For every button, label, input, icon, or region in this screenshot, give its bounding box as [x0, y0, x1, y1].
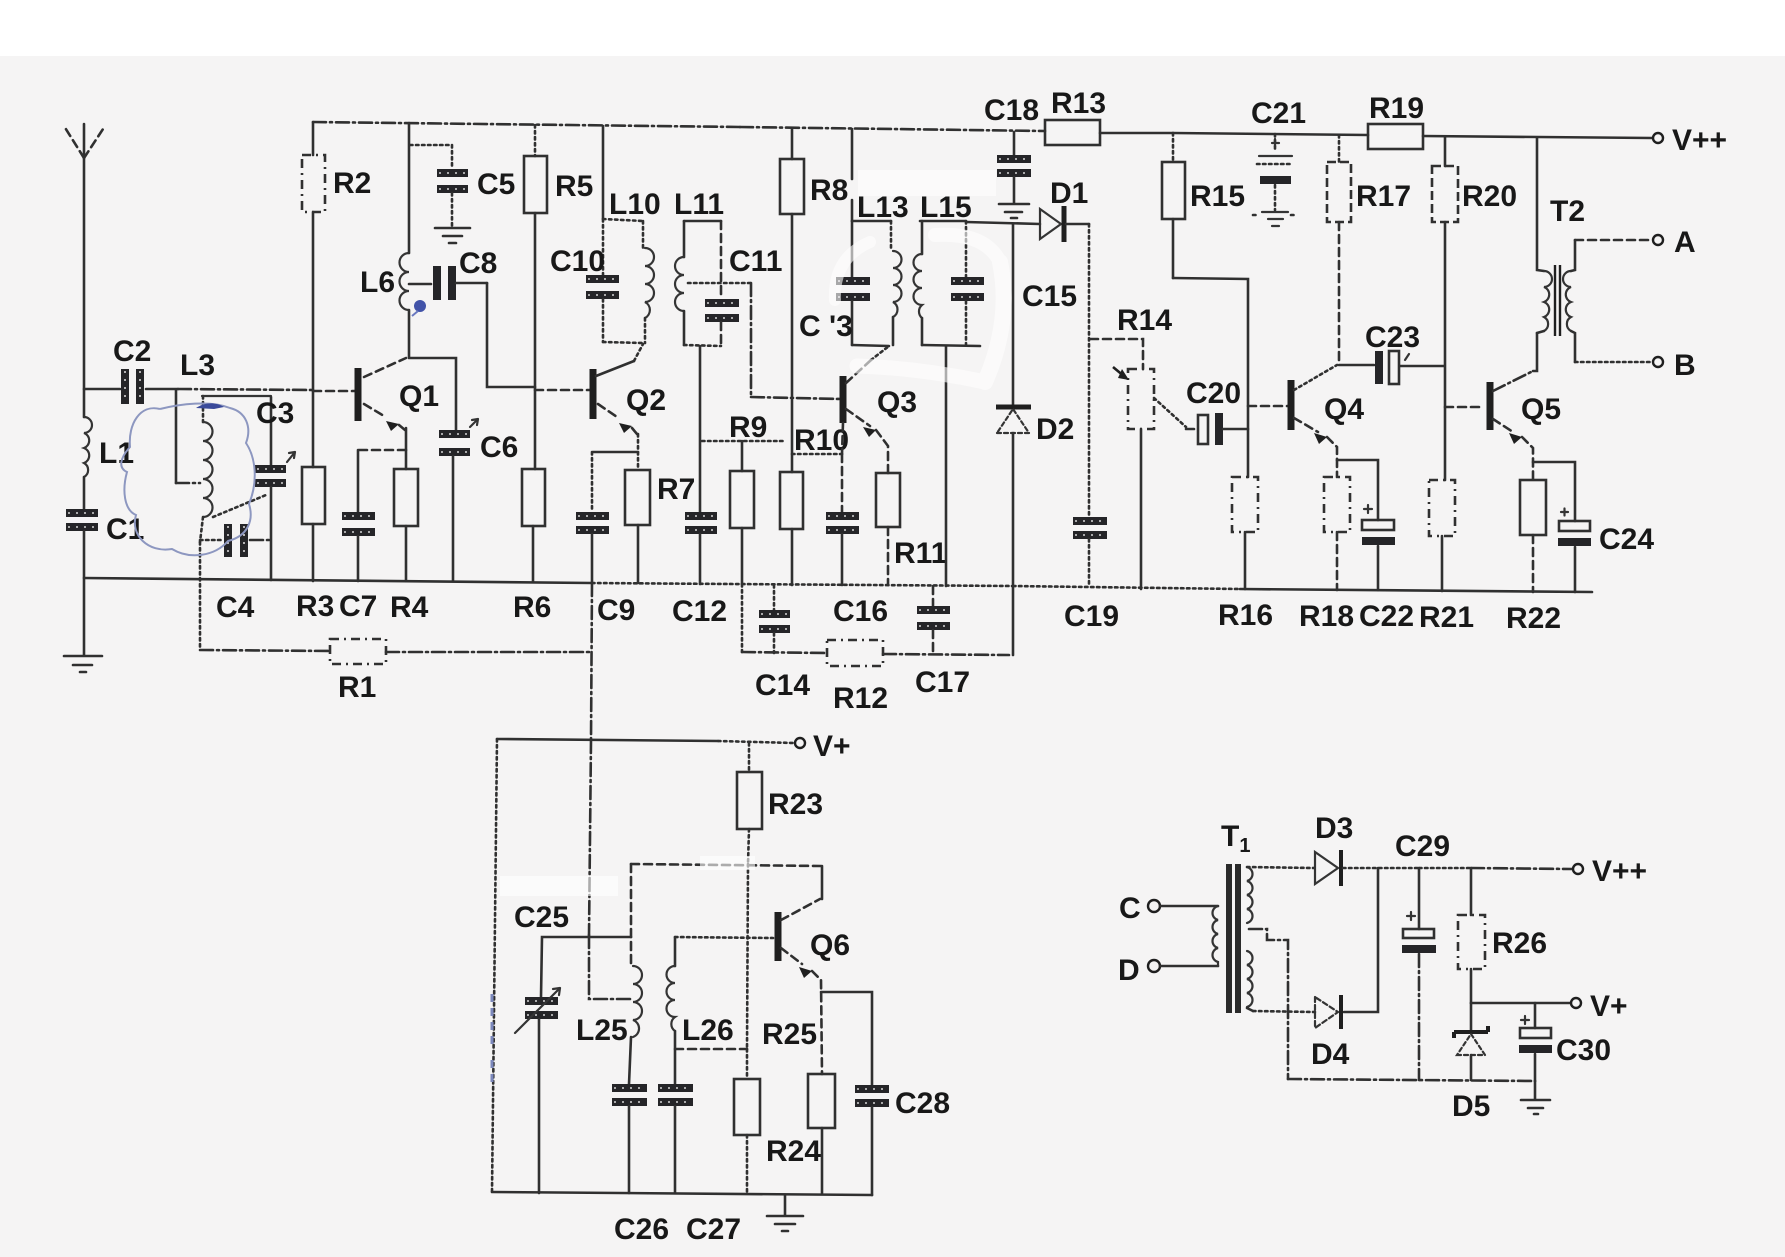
svg-text:R1: R1	[338, 671, 376, 704]
svg-text:C21: C21	[1251, 97, 1306, 130]
inductor L13	[890, 221, 893, 251]
inductor L10	[645, 248, 654, 318]
ground under C18	[999, 203, 1029, 206]
resistor R3	[312, 390, 315, 467]
transistor Q1	[355, 368, 362, 421]
resistor R16	[1232, 477, 1258, 532]
capacitor C11	[720, 221, 723, 299]
svg-text:R22: R22	[1506, 602, 1561, 635]
capacitor C25 (variable)	[541, 937, 631, 997]
svg-text:Q3: Q3	[877, 386, 917, 419]
diode D5 (zener)	[1470, 1003, 1473, 1030]
resistor R14 (variable)	[1090, 339, 1143, 369]
svg-text:C1: C1	[106, 513, 144, 546]
svg-text:C7: C7	[339, 590, 377, 623]
svg-text:V++: V++	[1672, 124, 1727, 157]
capacitor C28	[821, 992, 872, 1085]
wire Q1 emitter	[405, 428, 408, 469]
capacitor C19	[1073, 517, 1107, 525]
svg-text:C16: C16	[833, 595, 888, 628]
L15 tank	[920, 220, 966, 223]
resistor R20	[1444, 137, 1447, 166]
capacitor C21	[1274, 134, 1277, 152]
svg-text:V+: V+	[813, 730, 851, 763]
capacitor C23	[1339, 364, 1374, 367]
wire secondary top to D3	[1247, 867, 1314, 868]
L13 tank from rail	[851, 129, 854, 179]
svg-text:R13: R13	[1051, 87, 1106, 120]
capacitor C5	[437, 169, 468, 177]
wire R9 node	[702, 440, 784, 443]
diode D2 (to ground bus)	[1012, 224, 1015, 405]
svg-text:R6: R6	[513, 591, 551, 624]
svg-text:A: A	[1674, 226, 1696, 259]
svg-text:C12: C12	[672, 595, 727, 628]
capacitor C4	[200, 539, 222, 542]
svg-text:C27: C27	[686, 1213, 741, 1246]
transistor Q2	[590, 369, 597, 419]
inductor L26	[674, 937, 677, 966]
capacitor C6	[409, 358, 456, 430]
svg-text:R26: R26	[1492, 927, 1547, 960]
terminal B	[1575, 361, 1652, 364]
capacitor C26	[612, 1084, 647, 1092]
capacitor C10	[602, 219, 605, 275]
resistor R6	[534, 387, 537, 469]
inductor L6	[400, 253, 410, 310]
capacitor C30	[1534, 1003, 1537, 1028]
wire loop left side	[492, 739, 497, 1192]
svg-text:R20: R20	[1462, 180, 1517, 213]
svg-text:R9: R9	[729, 411, 767, 444]
svg-text:L3: L3	[180, 349, 215, 382]
top supply rail	[313, 122, 740, 127]
wire L3 line	[146, 388, 178, 391]
capacitor C24	[1533, 462, 1575, 521]
transistor Q5	[1487, 382, 1494, 430]
blue dot near L6	[414, 300, 426, 312]
power supply bottom rail	[1288, 1079, 1535, 1081]
svg-text:R17: R17	[1356, 180, 1411, 213]
oscillator bottom line	[492, 1192, 872, 1195]
diode D1	[1040, 209, 1061, 239]
svg-text:C28: C28	[895, 1087, 950, 1120]
svg-text:Q5: Q5	[1521, 393, 1561, 426]
terminal D	[1148, 960, 1160, 972]
resistor R5	[534, 125, 537, 156]
svg-text:V++: V++	[1592, 855, 1647, 888]
ground	[784, 1195, 787, 1215]
svg-text:C3: C3	[256, 397, 294, 430]
svg-text:C19: C19	[1064, 600, 1119, 633]
capacitor C12	[699, 346, 702, 512]
svg-text:C8: C8	[459, 247, 497, 280]
svg-text:D3: D3	[1315, 812, 1353, 845]
transistor Q4	[1288, 380, 1295, 430]
svg-text:D1: D1	[1050, 177, 1088, 210]
wire to C2	[84, 388, 120, 391]
resistor R7	[637, 434, 640, 470]
terminal V+	[795, 738, 805, 748]
inductor L15	[914, 254, 923, 318]
diode D4	[1315, 997, 1338, 1028]
ground	[64, 655, 102, 658]
svg-text:C23: C23	[1365, 321, 1420, 354]
svg-text:D5: D5	[1452, 1090, 1490, 1123]
ground under C5	[435, 227, 470, 230]
blue marks left of C25	[491, 994, 494, 1085]
capacitor C3 (variable)	[270, 397, 273, 465]
svg-text:R23: R23	[768, 788, 823, 821]
svg-text:L10: L10	[609, 188, 661, 221]
wire C4 node down	[199, 542, 202, 650]
svg-text:T2: T2	[1550, 195, 1585, 228]
svg-text:L26: L26	[682, 1014, 734, 1047]
svg-text:R12: R12	[833, 682, 888, 715]
inductor L11	[675, 257, 684, 311]
svg-text:R19: R19	[1369, 92, 1424, 125]
resistor R24	[746, 1049, 749, 1079]
wire Q1 collector up to L6	[408, 310, 411, 357]
capacitor C14	[773, 585, 776, 610]
resistor R11	[876, 430, 888, 473]
wire to Q4 base	[1248, 405, 1288, 408]
ground under C30	[1534, 1081, 1537, 1099]
diode D3	[1315, 852, 1338, 884]
svg-text:C10: C10	[550, 245, 605, 278]
svg-text:R4: R4	[390, 591, 429, 624]
svg-text:R18: R18	[1299, 600, 1354, 633]
V+ rail	[497, 739, 718, 741]
ground under C21	[1262, 211, 1288, 213]
svg-text:R2: R2	[333, 167, 371, 200]
wire D3 output to V++	[1419, 867, 1471, 870]
wire L6 top to rail	[408, 123, 411, 253]
white-out near L25	[500, 876, 618, 896]
wire dashed net to R12	[742, 652, 827, 653]
svg-text:C30: C30	[1556, 1034, 1611, 1067]
svg-text:C22: C22	[1359, 600, 1414, 633]
resistor R17	[1338, 135, 1341, 162]
resistor R15	[1172, 133, 1175, 162]
svg-text:C29: C29	[1395, 830, 1450, 863]
resistor R19 (on rail)	[1368, 124, 1423, 149]
capacitor C8	[409, 283, 431, 286]
wire Q1 base	[313, 390, 356, 393]
svg-text:R11: R11	[894, 537, 947, 570]
capacitor C22	[1337, 460, 1378, 520]
svg-text:Q4: Q4	[1324, 393, 1364, 426]
svg-text:R15: R15	[1190, 180, 1245, 213]
wire D2 line below bus	[1012, 586, 1015, 655]
resistor R21	[1429, 480, 1455, 536]
wire to Q5 base	[1445, 406, 1484, 409]
wire Q2 base	[535, 389, 591, 392]
transformer T1 secondary lower	[1247, 951, 1253, 1007]
resistor R1	[200, 650, 330, 651]
svg-text:C '3: C '3	[799, 310, 853, 343]
svg-text:C25: C25	[514, 901, 569, 934]
inductor L25	[633, 966, 642, 1037]
svg-text:C4: C4	[216, 591, 255, 624]
antenna	[83, 124, 86, 417]
capacitor C7	[358, 449, 406, 452]
transistor Q3	[840, 376, 847, 423]
wire R10 node to Q3 base	[792, 453, 842, 456]
svg-text:R3: R3	[296, 590, 334, 623]
resistor R9	[741, 441, 744, 471]
svg-text:C15: C15	[1022, 280, 1077, 313]
resistor R4	[394, 469, 418, 526]
transformer T1 core	[1226, 864, 1232, 1013]
wire collector net	[631, 864, 822, 866]
svg-text:R16: R16	[1218, 599, 1273, 632]
svg-text:R5: R5	[555, 170, 593, 203]
inductor L1	[84, 417, 92, 477]
transformer T2	[1537, 138, 1544, 271]
svg-text:R25: R25	[762, 1018, 817, 1051]
resistor R26	[1470, 868, 1473, 915]
svg-text:Q2: Q2	[626, 384, 666, 417]
svg-text:R21: R21	[1419, 601, 1474, 634]
main ground bus	[84, 578, 592, 583]
capacitor C9	[593, 451, 638, 454]
resistor R18	[1327, 437, 1337, 477]
wire V+ out	[1471, 1002, 1570, 1005]
svg-text:C17: C17	[915, 666, 970, 699]
svg-text:D2: D2	[1036, 413, 1074, 446]
wire C9 node down to oscillator	[591, 583, 592, 740]
wire R15 jog to R16 line	[1173, 278, 1248, 477]
wire tank left drop	[175, 390, 178, 483]
wire D1 output down	[1088, 224, 1091, 517]
svg-text:Q6: Q6	[810, 929, 850, 962]
capacitor C16	[841, 454, 844, 512]
wire tank top to D1	[966, 222, 1040, 224]
svg-text:C5: C5	[477, 168, 515, 201]
svg-text:Q1: Q1	[399, 380, 439, 413]
white-out ring around Q3/L13/L15	[835, 242, 870, 300]
wire antenna to ground	[83, 531, 86, 655]
resistor R25	[812, 971, 822, 1074]
svg-text:C26: C26	[614, 1213, 669, 1246]
wiper to C20	[1154, 398, 1186, 427]
capacitor C15	[965, 221, 968, 277]
transformer T1 secondary upper	[1247, 867, 1253, 923]
wire Q5 collector to T2	[1533, 333, 1537, 371]
wire coil bottom to C4 node	[200, 517, 203, 542]
wire Q6 base net	[675, 937, 773, 938]
svg-text:R7: R7	[657, 473, 695, 506]
wire L15 tank bottom to bus	[945, 346, 948, 586]
svg-text:R24: R24	[766, 1135, 821, 1168]
wire oscillator injection (from C9)	[589, 740, 591, 935]
svg-text:C11: C11	[729, 245, 782, 278]
capacitor C13	[851, 221, 854, 277]
L11/C11 tank	[684, 220, 721, 223]
resistor R2	[312, 122, 315, 155]
resistor R22	[1522, 437, 1533, 480]
svg-text:L6: L6	[360, 266, 395, 299]
capacitor C17	[932, 586, 935, 606]
wire D4 cathode branch	[1344, 868, 1378, 1012]
capacitor C5 tap	[410, 145, 452, 169]
wire C8 down to R6 node	[487, 283, 534, 387]
svg-text:B: B	[1674, 349, 1696, 382]
svg-text:L25: L25	[576, 1014, 628, 1047]
blue pen scribble	[121, 403, 254, 555]
L10/C10 tank	[602, 126, 605, 219]
transformer T1 primary	[1212, 906, 1218, 966]
svg-text:C2: C2	[113, 335, 151, 368]
resistor R23	[748, 743, 751, 772]
svg-text:D: D	[1118, 954, 1140, 987]
transistor Q6	[775, 912, 782, 961]
svg-text:R14: R14	[1117, 304, 1172, 337]
svg-text:L11: L11	[674, 188, 724, 221]
svg-text:D4: D4	[1311, 1038, 1350, 1071]
svg-text:C: C	[1119, 892, 1141, 925]
wire L11 tap to Q3 base	[688, 282, 751, 285]
terminal C	[1148, 900, 1160, 912]
wire Q2 collector to L10 tank	[634, 344, 643, 361]
svg-text:C20: C20	[1186, 377, 1241, 410]
resistor R13 (on rail)	[1045, 120, 1100, 145]
capacitor C2	[121, 369, 129, 404]
capacitor C1	[66, 509, 98, 517]
svg-text:C6: C6	[480, 431, 518, 464]
svg-text:V+: V+	[1590, 990, 1628, 1023]
svg-text:R8: R8	[810, 174, 848, 207]
resistor R8	[791, 129, 794, 159]
terminal V++	[1653, 133, 1663, 143]
top rail right portion	[1173, 133, 1368, 135]
svg-text:C18: C18	[984, 94, 1039, 127]
capacitor C29	[1418, 868, 1421, 929]
svg-text:C9: C9	[597, 594, 635, 627]
terminal A	[1575, 239, 1652, 242]
svg-text:C24: C24	[1599, 523, 1654, 556]
capacitor C20	[1186, 428, 1197, 431]
inductor L3 coil	[202, 396, 205, 422]
capacitor C18	[1013, 132, 1016, 155]
resistor R10	[780, 472, 803, 529]
resistor R12	[827, 640, 883, 666]
capacitor C27	[658, 1084, 693, 1092]
svg-text:C14: C14	[755, 669, 810, 702]
wire center tap	[1249, 929, 1288, 1079]
wire base divider node	[675, 1048, 747, 1051]
